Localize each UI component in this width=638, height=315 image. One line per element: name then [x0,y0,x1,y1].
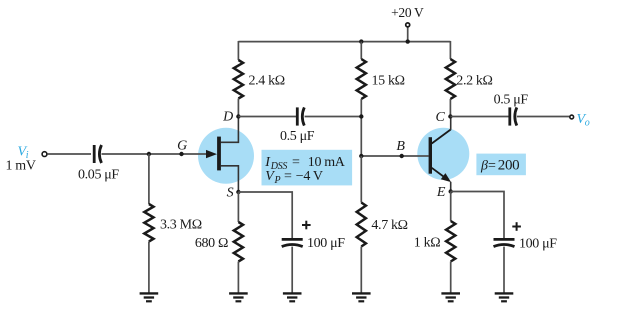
junction node at 3.3M [147,152,151,156]
junction cap-15k [359,114,363,118]
wire B branch to base [361,155,428,157]
ground 4.7k [352,293,371,301]
resistor RE1 4.7k [357,203,366,247]
svg-text:3.3 MΩ: 3.3 MΩ [160,218,202,233]
resistor RS 680 [234,222,243,262]
svg-text:B: B [396,139,405,154]
wire 15k bottom down to B level [360,99,362,156]
ground 1k [441,293,460,301]
wire 2.4k bottom to D [237,99,239,117]
wire 2.4k top [237,41,239,60]
svg-text:15 kΩ: 15 kΩ [372,74,405,89]
JFET Q1 symbol [206,117,238,192]
wire 2.2k bottom to C [449,99,451,117]
junction B branch [359,154,363,158]
svg-text:E: E [436,185,446,200]
wire S to bypass cap branch [238,192,292,238]
ground 680 [229,293,248,301]
capacitor C4 100uF bypass [282,239,303,246]
capacitor C2 0.5uF interstage [297,107,304,125]
svg-text:1 mV: 1 mV [6,158,36,173]
svg-text:+20 V: +20 V [391,5,424,20]
BJT Q2 symbol [429,117,452,193]
ground 3.3M [140,293,159,301]
wire E down to 1k [450,192,452,222]
node S dot [236,190,240,194]
svg-text:2.2 kΩ: 2.2 kΩ [456,74,492,89]
junction rail-supply [406,39,410,43]
node B dot [400,154,404,158]
svg-text:0.05 μF: 0.05 μF [78,168,119,183]
svg-text:680 Ω: 680 Ω [195,236,228,251]
wire 4.7k to ground [360,247,362,293]
wire 15k branch down to 4.7k [360,156,362,203]
BJT Q2 highlight circle [417,128,469,180]
wire S down to 680 [237,192,239,222]
wire C to output cap [450,116,509,118]
wire cap to gate [102,153,208,155]
terminal +20V [406,23,410,27]
svg-text:100 μF: 100 μF [307,236,345,251]
wire 1k to ground [450,262,452,293]
ground emitter cap [495,293,514,301]
node E dot [449,189,453,193]
wire +20V lead [407,27,409,42]
wire 15k top [360,42,362,59]
svg-text:S: S [227,186,234,201]
wire E to emitter bypass cap [451,192,504,239]
wire bypass cap to ground [291,247,293,293]
svg-text:0.5 μF: 0.5 μF [494,93,529,108]
resistor RG 3.3M [144,204,153,242]
plus sign C4 [302,221,311,230]
ground bypass cap [283,293,302,301]
junction rail-15k [359,39,363,43]
resistor RD 2.4k [234,60,243,99]
svg-text:0.5 μF: 0.5 μF [280,129,315,144]
wire top supply rail [238,41,450,43]
wire 680 to ground [237,262,239,293]
node D dot [236,114,240,118]
wire emitter cap to ground [503,247,505,293]
JFET Q1 highlight circle [198,128,254,184]
svg-text:4.7 kΩ: 4.7 kΩ [371,218,407,233]
capacitor C5 100uF emitter [494,239,515,246]
svg-text:100 μF: 100 μF [519,237,557,252]
svg-text:D: D [222,110,233,125]
svg-text:G: G [177,139,187,154]
svg-text:C: C [436,110,446,125]
node G dot [179,152,183,156]
BJT beta box [476,154,526,176]
JFET parameter box [262,150,353,186]
svg-text:β=200: β=200 [480,157,519,173]
wire cap to 15k branch [305,116,362,118]
wire D to coupling cap [238,116,296,118]
wire rail right end down to 2.2k [449,41,451,59]
svg-text:1 kΩ: 1 kΩ [414,236,441,251]
capacitor C1 0.05uF [94,145,101,163]
resistor RE2 1k [446,221,455,262]
node C dot [448,114,452,118]
capacitor C3 0.5uF output [510,107,517,125]
terminal Vi input [42,152,47,157]
resistor RB 15k [357,59,366,99]
resistor RC 2.2k [446,59,455,99]
wire cap to Vo [517,116,570,118]
terminal Vo [570,115,574,119]
plus sign C5 [512,222,521,231]
wire 3.3M to ground [148,242,150,293]
wire 3.3M down [148,154,150,204]
wire input to cap [47,153,91,155]
svg-text:2.4 kΩ: 2.4 kΩ [249,74,285,89]
